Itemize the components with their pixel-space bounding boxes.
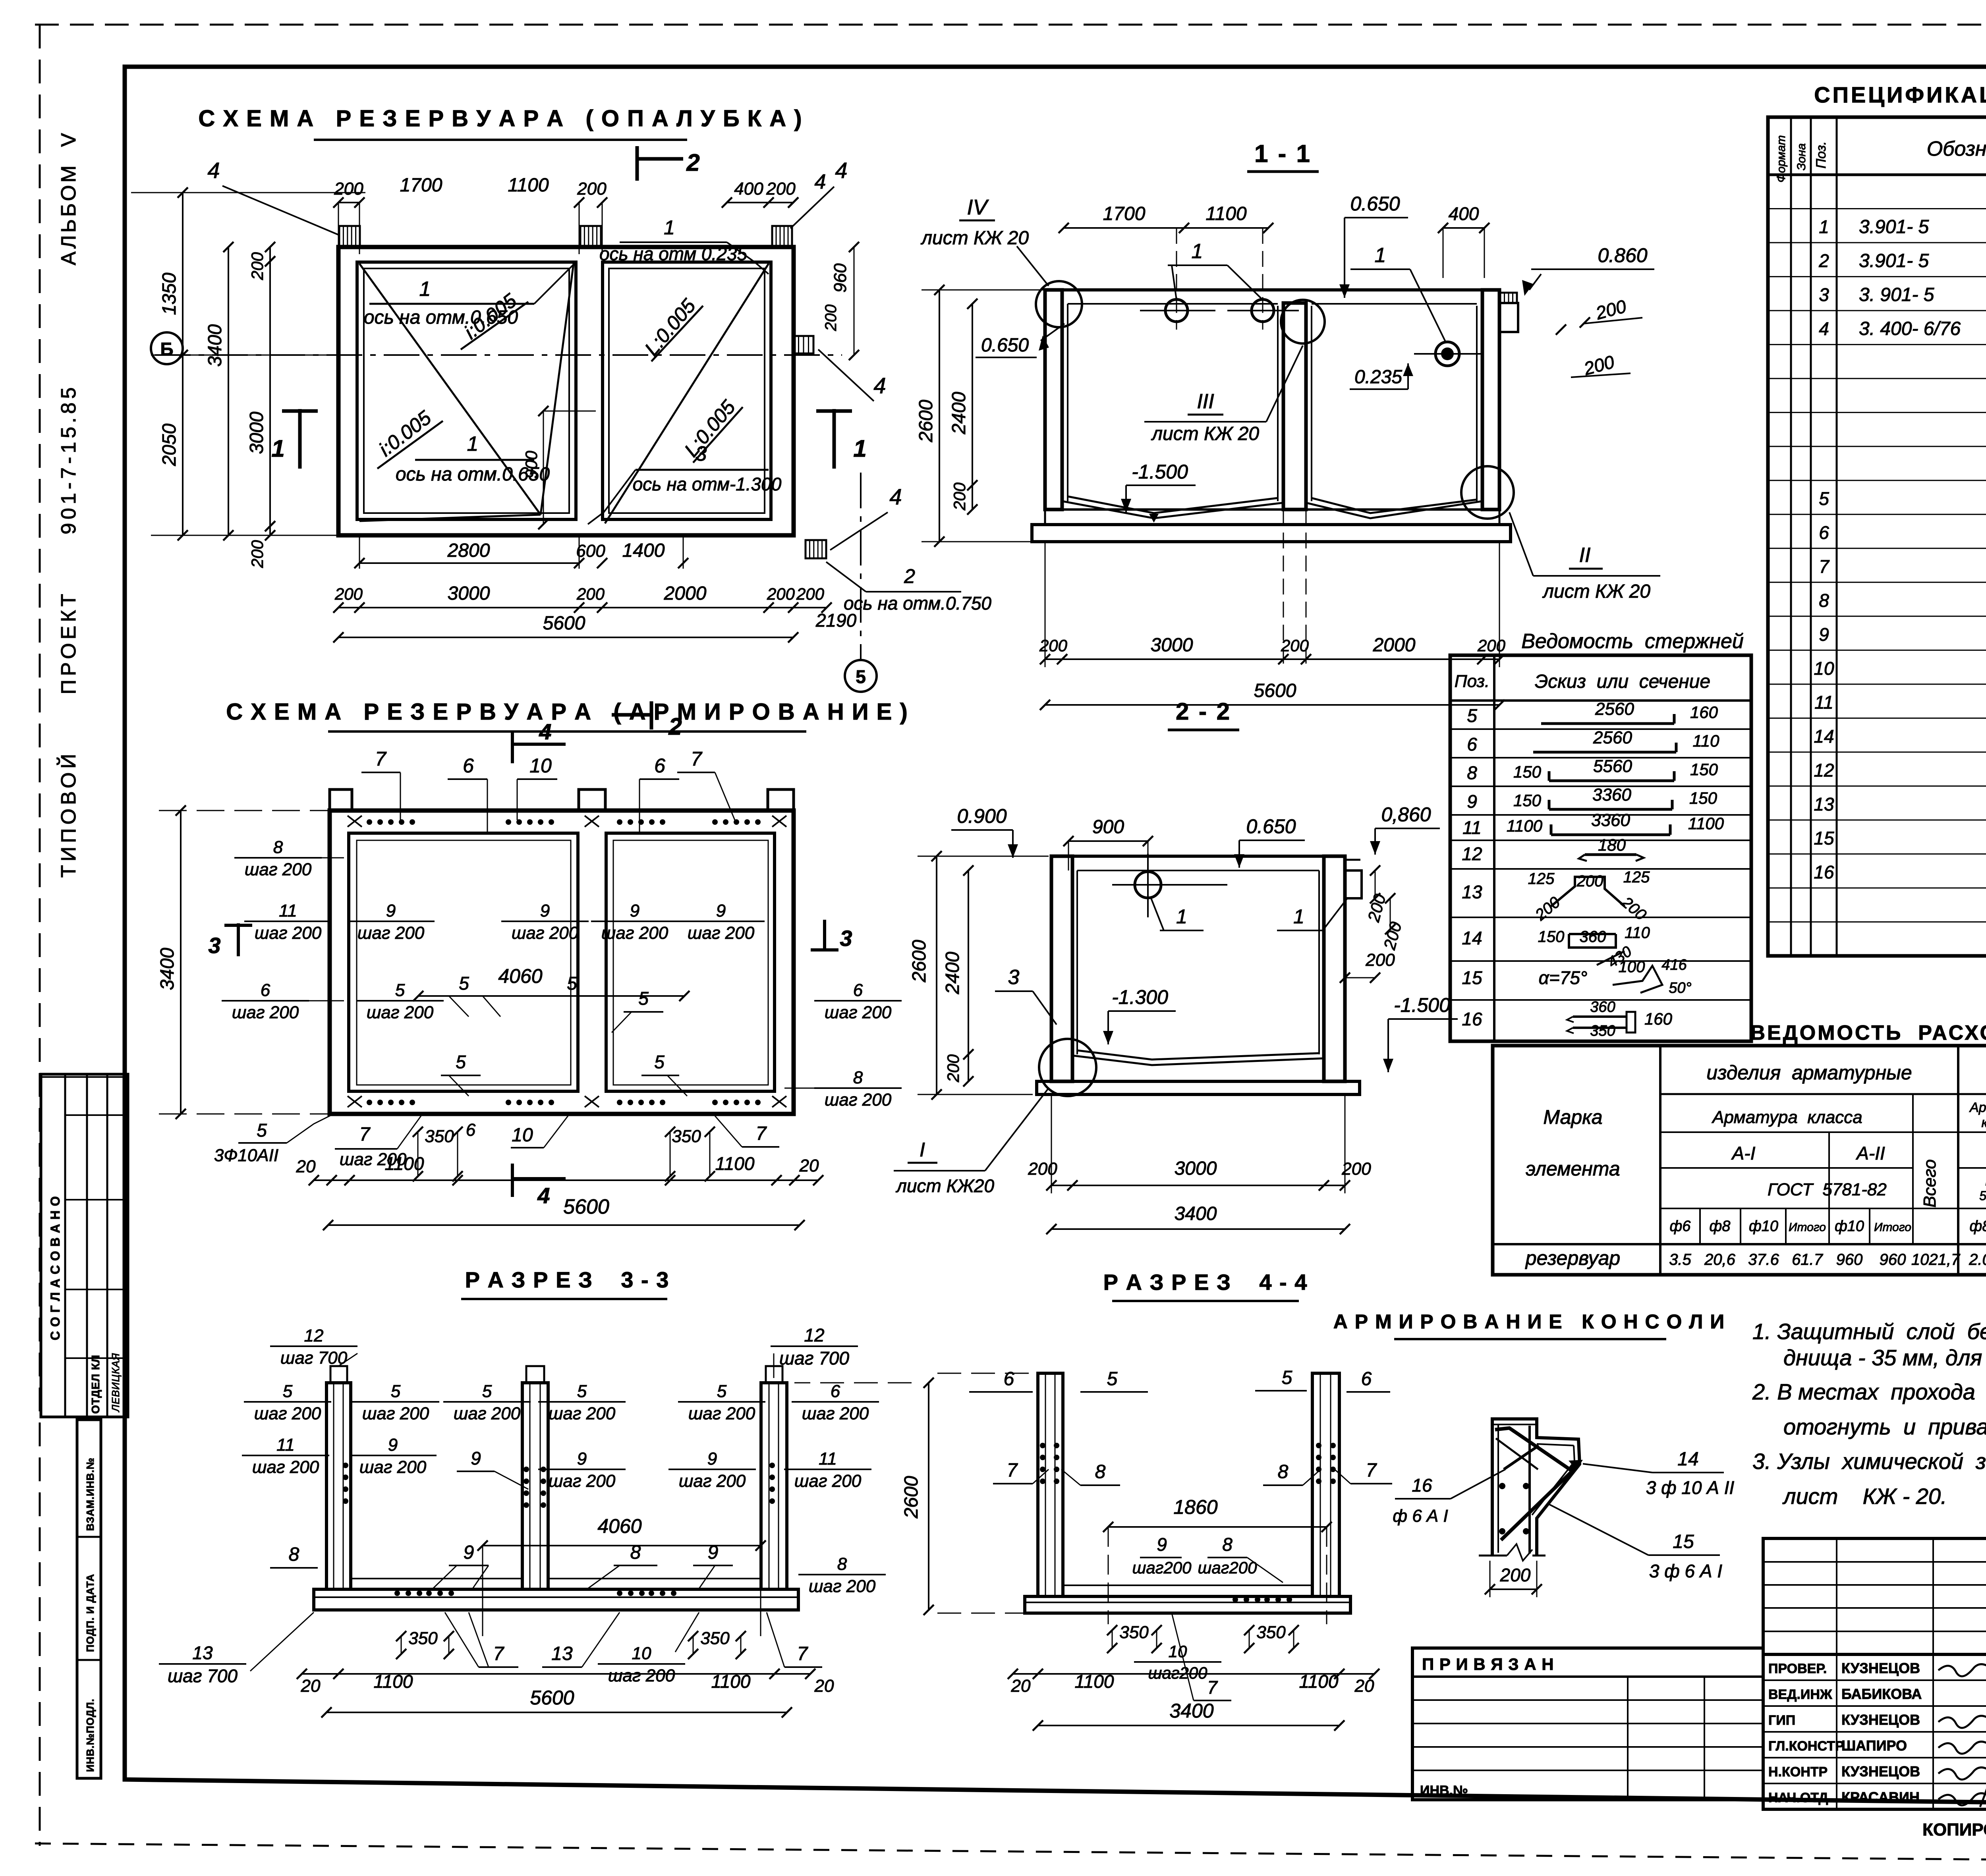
- svg-text:3400: 3400: [157, 948, 178, 990]
- svg-text:9: 9: [464, 1542, 474, 1563]
- razrez 3-3 middle wall: [522, 1383, 548, 1589]
- svg-text:шаг 200: шаг 200: [688, 1404, 755, 1423]
- svg-text:200: 200: [1281, 636, 1309, 655]
- reinforcement plan left chamber walls: [349, 833, 578, 1091]
- svg-text:1021,7: 1021,7: [1911, 1251, 1961, 1268]
- konsol dim 200: [1490, 1588, 1537, 1590]
- svg-text:НАЧ.ОТД: НАЧ.ОТД: [1768, 1790, 1828, 1805]
- svg-text:5: 5: [567, 973, 577, 994]
- svg-text:900: 900: [522, 450, 541, 479]
- svg-text:1100: 1100: [385, 1153, 424, 1174]
- svg-text:-1.500: -1.500: [1394, 994, 1450, 1016]
- svg-text:11: 11: [819, 1449, 837, 1469]
- svg-text:5600: 5600: [563, 1195, 609, 1218]
- svg-text:15: 15: [1814, 828, 1834, 848]
- konsol rebar bar 15: [1501, 1467, 1577, 1540]
- svg-text:Н.КОНТР: Н.КОНТР: [1768, 1764, 1828, 1779]
- svg-text:4: 4: [835, 158, 847, 183]
- plan bottom dims 200 3000 row: [338, 607, 827, 608]
- svg-text:0.860: 0.860: [1598, 244, 1647, 266]
- svg-text:360: 360: [1590, 999, 1615, 1015]
- svg-text:шаг 200: шаг 200: [454, 1404, 521, 1423]
- svg-text:5: 5: [456, 1052, 466, 1072]
- svg-text:5: 5: [459, 973, 469, 994]
- konsol vertical rebar: [1528, 1426, 1531, 1554]
- svg-text:5: 5: [1819, 488, 1829, 509]
- svg-text:2600: 2600: [916, 400, 937, 442]
- svg-text:61.7: 61.7: [1792, 1251, 1824, 1268]
- svg-text:7: 7: [1207, 1677, 1218, 1698]
- section mark 2 bottom: [650, 701, 653, 730]
- svg-text:1 - 1: 1 - 1: [1254, 140, 1312, 168]
- svg-text:150: 150: [1538, 928, 1565, 946]
- svg-text:2600: 2600: [901, 1476, 922, 1519]
- section 1-1 left wall: [1045, 290, 1062, 510]
- razrez 3-3 dim row 20 1100: [302, 1673, 810, 1675]
- svg-text:резервуар: резервуар: [1525, 1247, 1620, 1269]
- svg-text:110: 110: [1693, 731, 1720, 750]
- svg-text:шаг 700: шаг 700: [779, 1348, 849, 1368]
- svg-text:шаг 200: шаг 200: [809, 1577, 876, 1596]
- svg-text:3400: 3400: [1169, 1700, 1213, 1722]
- plan bottom dim 5600: [338, 637, 793, 638]
- svg-text:6: 6: [466, 1120, 476, 1140]
- svg-text:200: 200: [577, 179, 607, 199]
- sidebar approval table: [41, 1074, 128, 1417]
- svg-text:КРАСАВИН: КРАСАВИН: [1841, 1789, 1920, 1805]
- section 1-1 middle wall: [1283, 303, 1306, 510]
- section mark 3 left: [237, 923, 240, 956]
- svg-text:16: 16: [1814, 862, 1834, 882]
- svg-text:200: 200: [1365, 950, 1395, 970]
- svg-text:0.650: 0.650: [1350, 193, 1400, 215]
- section 1-1 bottom slab: [1045, 508, 1499, 511]
- svg-text:150: 150: [1513, 762, 1542, 781]
- svg-text:шаг 200: шаг 200: [825, 1090, 892, 1110]
- plan formwork outer wall: [338, 247, 794, 535]
- svg-text:3360: 3360: [1591, 811, 1630, 830]
- svg-text:100: 100: [1619, 958, 1645, 976]
- svg-text:8: 8: [1819, 590, 1829, 611]
- svg-text:180: 180: [1598, 836, 1626, 854]
- svg-text:1: 1: [1293, 905, 1304, 928]
- svg-text:А-I: А-I: [1731, 1143, 1756, 1164]
- svg-text:2. В местах прохода сальнико: 2. В местах прохода сальников арматуры р…: [1752, 1379, 1986, 1404]
- svg-text:12: 12: [304, 1326, 324, 1345]
- svg-text:200: 200: [767, 585, 795, 603]
- svg-text:шаг 200: шаг 200: [549, 1471, 616, 1491]
- svg-text:ТИПОВОЙ ПРОЕКТ 901-7: ТИПОВОЙ ПРОЕКТ 901-7-15.85: [57, 384, 80, 878]
- svg-text:КОПИРОВАЛ: Коршунова: КОПИРОВАЛ: Коршунова: [1922, 1820, 1986, 1839]
- svg-text:1: 1: [1192, 240, 1203, 263]
- svg-text:1100: 1100: [374, 1671, 413, 1692]
- section 2-2 top rim: [1051, 855, 1345, 858]
- section 2-2 node circle: [1039, 1039, 1096, 1096]
- razrez 4-4 dim 3400: [1038, 1725, 1339, 1726]
- svg-text:шаг 200: шаг 200: [232, 1003, 299, 1022]
- svg-text:С Х Е М А Р Е З Е Р В У А Р: С Х Е М А Р Е З Е Р В У А Р А ( О П А Л …: [198, 106, 802, 131]
- section 1-1 pipe sleeve left: [1165, 299, 1188, 322]
- svg-text:Р А З Р Е З 3 - 3: Р А З Р Е З 3 - 3: [465, 1267, 670, 1292]
- label 900 vertical: [543, 411, 544, 524]
- svg-text:5: 5: [717, 1382, 727, 1401]
- svg-text:9: 9: [716, 901, 726, 921]
- svg-text:9: 9: [577, 1449, 587, 1469]
- svg-text:960: 960: [1880, 1251, 1906, 1268]
- section 2-2 right wall: [1324, 856, 1345, 1081]
- svg-text:2600: 2600: [909, 940, 930, 982]
- svg-text:3000: 3000: [448, 583, 490, 604]
- svg-text:КУЗНЕЦОВ: КУЗНЕЦОВ: [1841, 1712, 1920, 1728]
- svg-text:5: 5: [482, 1382, 492, 1401]
- svg-text:2050: 2050: [159, 423, 180, 466]
- svg-text:20: 20: [814, 1676, 834, 1696]
- svg-text:8: 8: [837, 1554, 847, 1574]
- section 1-1 right wall: [1482, 290, 1499, 510]
- svg-text:0.650: 0.650: [981, 335, 1029, 356]
- svg-text:16: 16: [1412, 1475, 1432, 1496]
- svg-text:КУЗНЕЦОВ: КУЗНЕЦОВ: [1841, 1763, 1920, 1779]
- svg-text:шаг200: шаг200: [1198, 1558, 1257, 1577]
- svg-text:9: 9: [1157, 1534, 1167, 1555]
- svg-text:9: 9: [708, 1542, 719, 1563]
- svg-text:1. Защитный слой бетона для: 1. Защитный слой бетона для нижней армат…: [1752, 1319, 1986, 1344]
- section 2-2 floor: [1077, 1050, 1319, 1060]
- svg-text:9: 9: [707, 1449, 717, 1469]
- svg-text:9: 9: [388, 1435, 398, 1455]
- svg-text:350: 350: [408, 1629, 438, 1648]
- section mark 3 right: [823, 920, 826, 952]
- svg-text:7: 7: [1007, 1460, 1018, 1481]
- specification table grid: [1768, 117, 1986, 956]
- svg-text:6: 6: [1361, 1368, 1372, 1390]
- section 1-1 dim 5600: [1045, 704, 1499, 706]
- svg-text:8: 8: [289, 1544, 299, 1565]
- svg-text:11: 11: [1814, 692, 1833, 712]
- svg-text:шаг 200: шаг 200: [512, 923, 579, 943]
- svg-text:5: 5: [391, 1382, 401, 1401]
- svg-text:5600: 5600: [1254, 680, 1296, 701]
- svg-text:5: 5: [638, 988, 649, 1009]
- svg-text:3: 3: [1819, 284, 1829, 305]
- svg-text:37.6: 37.6: [1748, 1251, 1779, 1268]
- section 2-2 base slab: [1051, 1080, 1345, 1083]
- svg-text:200: 200: [796, 585, 825, 603]
- svg-text:2800: 2800: [447, 540, 490, 561]
- console hatch bottom-right: [806, 540, 826, 558]
- section mark 4 top: [511, 731, 514, 763]
- section 1-1 top dims: [1064, 227, 1268, 229]
- svg-text:200: 200: [1028, 1159, 1057, 1179]
- svg-text:шаг 200: шаг 200: [802, 1404, 869, 1423]
- svg-text:20: 20: [296, 1157, 316, 1176]
- plan formwork drain diagonal right chamber: [605, 264, 769, 523]
- svg-text:200: 200: [822, 305, 840, 332]
- svg-text:160: 160: [1690, 703, 1718, 722]
- svg-text:2400: 2400: [949, 392, 970, 434]
- svg-text:960: 960: [831, 263, 850, 293]
- svg-text:160: 160: [1644, 1009, 1673, 1028]
- svg-text:ось на отм.0.650: ось на отм.0.650: [364, 307, 518, 328]
- axis circle B: [151, 332, 183, 364]
- svg-text:960: 960: [1836, 1251, 1863, 1268]
- svg-text:3: 3: [208, 933, 220, 958]
- svg-text:ПОДП. И ДАТА: ПОДП. И ДАТА: [84, 1574, 96, 1652]
- svg-text:ф 6 А I: ф 6 А I: [1393, 1506, 1448, 1526]
- svg-text:200: 200: [334, 179, 363, 199]
- svg-text:Формат: Формат: [1775, 135, 1788, 182]
- steel table grid: [1493, 1046, 1986, 1275]
- svg-text:Эскиз или сечение: Эскиз или сечение: [1535, 671, 1710, 692]
- svg-text:5600: 5600: [530, 1687, 574, 1709]
- section mark 1 left: [298, 409, 302, 469]
- svg-text:ГЛ.КОНСТР: ГЛ.КОНСТР: [1768, 1739, 1844, 1754]
- svg-text:20: 20: [1011, 1676, 1031, 1696]
- svg-text:350: 350: [1256, 1623, 1286, 1642]
- svg-text:1: 1: [467, 432, 479, 455]
- razrez 4-4 left wall: [1038, 1373, 1063, 1596]
- svg-text:Всего: Всего: [1920, 1159, 1940, 1208]
- svg-text:1: 1: [419, 278, 431, 301]
- svg-text:3000: 3000: [1175, 1158, 1217, 1179]
- svg-text:Арматура класса: Арматура класса: [1711, 1108, 1862, 1127]
- konsol rebar bar 16: [1504, 1446, 1539, 1469]
- section 1-1 left vertical dims: [939, 290, 940, 542]
- svg-text:4060: 4060: [597, 1515, 641, 1537]
- svg-text:3: 3: [695, 442, 707, 465]
- svg-text:350: 350: [1590, 1023, 1615, 1039]
- section 1-1 detail circle IV: [1036, 281, 1082, 327]
- svg-text:3.901- 5: 3.901- 5: [1859, 251, 1929, 272]
- svg-text:2400: 2400: [942, 952, 963, 994]
- svg-text:14: 14: [1814, 726, 1834, 747]
- svg-text:Обозначение: Обозначение: [1927, 137, 1986, 160]
- svg-text:лист КЖ 20: лист КЖ 20: [1151, 423, 1259, 444]
- svg-text:2: 2: [1818, 251, 1829, 271]
- section 1-1 detail circle II: [1461, 466, 1514, 519]
- razrez 4-4 extension to shared dim: [937, 1373, 1037, 1374]
- section mark 1 right: [833, 409, 836, 469]
- svg-text:ф8: ф8: [1970, 1218, 1986, 1235]
- reinforcement dim 5600: [328, 1224, 800, 1226]
- svg-text:20: 20: [301, 1676, 321, 1696]
- svg-text:Итого: Итого: [1874, 1221, 1911, 1234]
- svg-text:1100: 1100: [1507, 816, 1543, 835]
- reinforcement rebar dots bottom: [367, 1100, 372, 1105]
- svg-text:1100: 1100: [1688, 814, 1724, 833]
- svg-text:ПРОВЕР.: ПРОВЕР.: [1768, 1661, 1827, 1676]
- svg-text:200: 200: [950, 482, 969, 511]
- svg-text:4: 4: [889, 484, 902, 509]
- svg-text:350: 350: [700, 1629, 730, 1648]
- svg-text:шаг 200: шаг 200: [608, 1666, 675, 1685]
- svg-text:16: 16: [1462, 1009, 1482, 1029]
- plan formwork drain diagonals left chamber: [359, 264, 541, 515]
- reinforcement rebar dots top: [367, 819, 372, 825]
- svg-text:416: 416: [1661, 957, 1687, 973]
- svg-text:1700: 1700: [1103, 203, 1146, 224]
- svg-text:10: 10: [529, 755, 552, 777]
- reinforcement side dims: [180, 811, 182, 1114]
- svg-text:3: 3: [840, 926, 852, 951]
- svg-text:ВЕД.ИНЖ: ВЕД.ИНЖ: [1768, 1687, 1832, 1702]
- reinforcement corner cross marks: [348, 816, 362, 827]
- svg-text:5560: 5560: [1593, 757, 1632, 776]
- svg-text:4: 4: [537, 1183, 550, 1208]
- section 1-1 floor left chamber: [1068, 496, 1278, 513]
- svg-text:8: 8: [1222, 1534, 1233, 1555]
- razrez 4-4 wall rebar dots: [1054, 1443, 1059, 1448]
- svg-text:ВЕДОМОСТЬ РАСХОДА СТАЛИ НА: ВЕДОМОСТЬ РАСХОДА СТАЛИ НА РЕЗЕРВУАР,КГ: [1750, 1021, 1986, 1044]
- section 1-1 pipe sleeve middle: [1252, 299, 1274, 322]
- svg-text:150: 150: [1689, 789, 1717, 807]
- svg-text:6: 6: [1467, 734, 1477, 755]
- svg-text:200: 200: [1477, 636, 1506, 655]
- svg-text:1100: 1100: [711, 1671, 751, 1692]
- svg-text:1: 1: [1375, 244, 1386, 267]
- svg-text:3000: 3000: [1151, 635, 1193, 656]
- svg-text:14: 14: [1677, 1449, 1698, 1470]
- svg-text:С О Г Л А С О В А Н О: С О Г Л А С О В А Н О: [48, 1196, 62, 1340]
- svg-text:1100: 1100: [715, 1153, 755, 1174]
- svg-text:12: 12: [1814, 760, 1834, 780]
- svg-text:шаг 200: шаг 200: [549, 1404, 616, 1423]
- svg-text:6: 6: [853, 980, 863, 1000]
- svg-text:1100: 1100: [1299, 1671, 1339, 1692]
- svg-text:1: 1: [853, 435, 866, 462]
- svg-text:3. Узлы химической защиты р: 3. Узлы химической защиты резервуара смо…: [1752, 1449, 1986, 1474]
- svg-text:шаг 200: шаг 200: [252, 1457, 319, 1477]
- svg-text:9: 9: [540, 901, 550, 921]
- svg-text:3.5: 3.5: [1669, 1251, 1691, 1268]
- svg-text:6: 6: [1004, 1368, 1014, 1390]
- svg-text:I: I: [920, 1139, 925, 1161]
- svg-text:шаг 200: шаг 200: [359, 1457, 427, 1477]
- svg-text:III: III: [1197, 390, 1214, 413]
- svg-text:Зона: Зона: [1795, 143, 1808, 170]
- svg-text:3.901- 5: 3.901- 5: [1859, 216, 1929, 237]
- svg-text:днища - 35 мм, для остальной: днища - 35 мм, для остальной арматуры - …: [1783, 1345, 1986, 1370]
- svg-text:50°: 50°: [1669, 980, 1691, 996]
- svg-text:Поз.: Поз.: [1455, 672, 1490, 691]
- plan top-right dimension 400 200: [727, 202, 793, 203]
- svg-text:1: 1: [271, 435, 284, 462]
- svg-text:5: 5: [1467, 705, 1477, 726]
- svg-text:1: 1: [1819, 216, 1829, 237]
- reinforcement plan console tabs: [330, 789, 352, 811]
- svg-text:4: 4: [539, 719, 551, 744]
- section 2-2 left vertical dims: [936, 856, 937, 1094]
- svg-text:ВЗАМ.ИНВ.№: ВЗАМ.ИНВ.№: [84, 1457, 96, 1531]
- svg-text:7: 7: [493, 1643, 505, 1664]
- svg-text:3. 400- 6/76: 3. 400- 6/76: [1859, 318, 1961, 340]
- svg-text:350: 350: [672, 1127, 701, 1146]
- svg-text:4: 4: [207, 158, 220, 183]
- svg-text:ОТДЕЛ КЛ: ОТДЕЛ КЛ: [89, 1355, 102, 1414]
- svg-text:Поз.: Поз.: [1814, 141, 1829, 168]
- svg-text:БАБИКОВА: БАБИКОВА: [1841, 1686, 1922, 1702]
- svg-text:3360: 3360: [1592, 785, 1631, 805]
- svg-text:шаг 200: шаг 200: [245, 860, 312, 879]
- svg-text:200: 200: [1039, 636, 1068, 655]
- svg-text:8: 8: [1278, 1461, 1289, 1482]
- plan formwork left chamber inner wall: [357, 262, 576, 519]
- svg-text:ф6: ф6: [1670, 1218, 1691, 1235]
- svg-text:8: 8: [1095, 1461, 1106, 1482]
- svg-text:7: 7: [1819, 556, 1830, 577]
- rebar schedule table grid: [1450, 655, 1751, 1041]
- svg-text:1400: 1400: [622, 540, 665, 561]
- svg-text:2: 2: [686, 149, 699, 176]
- svg-text:13: 13: [551, 1643, 573, 1664]
- svg-text:5: 5: [577, 1382, 587, 1401]
- svg-text:шаг 200: шаг 200: [362, 1404, 429, 1423]
- svg-text:ф10: ф10: [1749, 1218, 1778, 1235]
- signatures scribbles: [1938, 1664, 1986, 1676]
- razrez 4-4 dim row 20 1100: [1013, 1673, 1374, 1675]
- dim 900 section 2-2: [1068, 840, 1148, 842]
- razrez 4-4 right wall: [1312, 1373, 1339, 1596]
- svg-text:шаг 200: шаг 200: [357, 923, 425, 943]
- svg-text:шаг 200: шаг 200: [679, 1471, 746, 1491]
- svg-text:13: 13: [1462, 882, 1482, 902]
- svg-text:2000: 2000: [664, 583, 707, 604]
- svg-text:шаг 700: шаг 700: [168, 1666, 238, 1686]
- svg-text:125: 125: [1623, 869, 1650, 886]
- svg-text:10: 10: [1814, 658, 1834, 679]
- svg-text:6: 6: [261, 980, 270, 1000]
- svg-text:лист КЖ 20: лист КЖ 20: [1542, 581, 1650, 602]
- svg-text:20: 20: [1354, 1676, 1374, 1696]
- svg-text:ф10: ф10: [1835, 1218, 1864, 1235]
- section 2-2 bottom dims: [1051, 1185, 1345, 1186]
- svg-text:9: 9: [471, 1448, 481, 1469]
- svg-text:отогнуть и приварить к кор: отогнуть и приварить к корпусу сальника.: [1783, 1414, 1986, 1439]
- svg-text:6: 6: [831, 1382, 840, 1401]
- svg-text:Арматура: Арматура: [1969, 1100, 1986, 1115]
- svg-text:0.900: 0.900: [957, 805, 1007, 827]
- svg-text:ИНВ.№: ИНВ.№: [1420, 1783, 1468, 1798]
- razrez 3-3 wall rebar dots: [343, 1463, 348, 1468]
- svg-text:8: 8: [853, 1068, 863, 1087]
- svg-text:А Р М И Р О В А Н И Е К О Н: А Р М И Р О В А Н И Е К О Н С О Л И: [1333, 1310, 1725, 1333]
- svg-text:II: II: [1579, 544, 1591, 567]
- plan formwork right chamber inner wall: [603, 262, 771, 519]
- svg-text:5600: 5600: [543, 613, 585, 634]
- svg-text:1350: 1350: [159, 272, 180, 315]
- svg-text:125: 125: [1528, 870, 1555, 888]
- razrez 3-3 left wall: [326, 1383, 351, 1589]
- svg-text:АЛЬБОМ V: АЛЬБОМ V: [57, 131, 80, 265]
- svg-text:600: 600: [576, 541, 605, 561]
- reinforcement plan right chamber walls: [606, 833, 775, 1091]
- svg-text:-1.300: -1.300: [1112, 986, 1168, 1008]
- section 2-2 dim 3400: [1051, 1228, 1345, 1230]
- svg-text:20,6: 20,6: [1704, 1251, 1736, 1268]
- svg-text:10: 10: [632, 1644, 651, 1663]
- svg-text:150: 150: [1513, 791, 1542, 810]
- svg-text:шаг200: шаг200: [1148, 1664, 1207, 1682]
- svg-text:Марка: Марка: [1543, 1106, 1602, 1128]
- svg-text:3 ф 6 А I: 3 ф 6 А I: [1649, 1561, 1722, 1581]
- svg-text:5: 5: [257, 1120, 267, 1141]
- plan bottom dims 2800 600 1400: [359, 562, 579, 564]
- svg-text:6: 6: [463, 755, 474, 777]
- svg-text:350: 350: [1119, 1623, 1149, 1642]
- section 1-1 top rim lines: [1062, 288, 1482, 291]
- svg-text:1100: 1100: [1206, 203, 1247, 224]
- section 2-2 right wall console step: [1345, 870, 1362, 898]
